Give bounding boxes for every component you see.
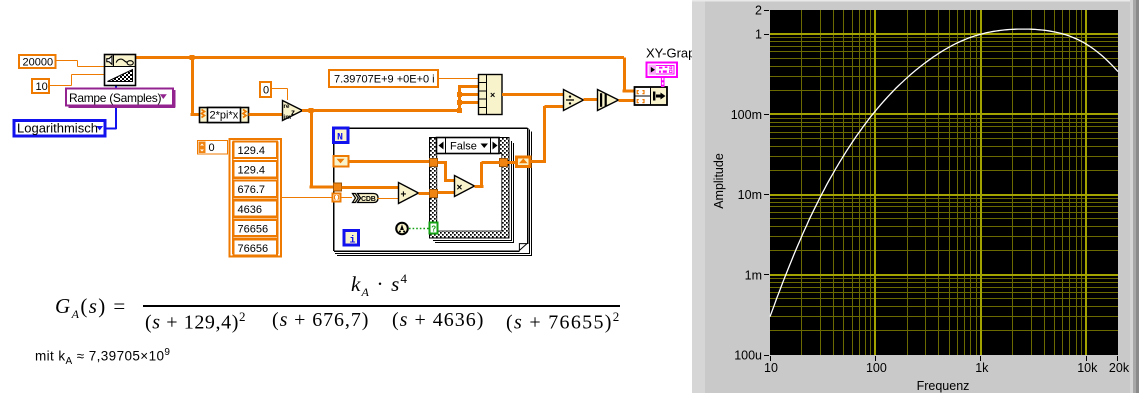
- bundle node: [635, 87, 668, 105]
- svg-text:0: 0: [209, 142, 215, 154]
- array element 76656: [234, 239, 278, 256]
- wire divide to abs: [584, 98, 598, 101]
- formula G_A(s): [55, 294, 127, 322]
- front panel background: [692, 0, 1139, 393]
- constant 10: [32, 79, 49, 93]
- wire lower tunnel to multiply: [438, 191, 456, 194]
- multiply node: [455, 176, 475, 197]
- svg-text:?: ?: [431, 225, 436, 234]
- loop stacked sheets: [335, 130, 532, 256]
- svg-text:20k: 20k: [1109, 361, 1130, 375]
- left shift register: [334, 156, 349, 167]
- svg-text:100: 100: [866, 361, 887, 375]
- wait-ms clock icon: [396, 223, 408, 235]
- svg-text:10: 10: [36, 81, 48, 93]
- svg-text:676.7: 676.7: [238, 184, 266, 196]
- wire product to divide: [502, 93, 563, 96]
- abs node: [598, 90, 619, 111]
- svg-text:re: re: [283, 103, 290, 110]
- wire array tunnel to CDB: [341, 197, 353, 199]
- svg-text:20000: 20000: [23, 57, 54, 69]
- wire 10 to ramp icon: [49, 75, 104, 86]
- loop frame: [334, 128, 528, 251]
- svg-text:4636: 4636: [238, 204, 262, 216]
- CDB conversion flag: [353, 194, 379, 204]
- array index box: [198, 141, 228, 155]
- svg-text:2: 2: [755, 4, 762, 18]
- enum constant Logarithmisch: [14, 120, 105, 136]
- constant 0 (re input): [260, 82, 271, 97]
- compound multiply node: [479, 75, 503, 115]
- wire s=jw horizontal: [302, 109, 461, 112]
- svg-text:7.39707E+9 +0E+0 i: 7.39707E+9 +0E+0 i: [334, 73, 435, 85]
- svg-text:×: ×: [490, 90, 495, 100]
- wire s tunnel to add: [342, 186, 399, 189]
- expression node 2*pi*x: [200, 108, 249, 123]
- junction dot s: [309, 108, 314, 113]
- svg-text:2*pi*x: 2*pi*x: [210, 110, 239, 122]
- svg-text:N: N: [337, 133, 343, 144]
- svg-text:Frequenz: Frequenz: [917, 379, 970, 393]
- N count terminal: [334, 128, 349, 144]
- dashed wire XY terminal to bundle: [661, 78, 665, 88]
- svg-text:1m: 1m: [745, 268, 762, 282]
- complex constant kA: [329, 70, 438, 87]
- svg-text:0: 0: [263, 85, 269, 97]
- fraction bar: [143, 305, 620, 307]
- main ramp wire (top): [136, 56, 624, 59]
- formula denominator: [145, 309, 246, 335]
- case right tunnel: [500, 159, 508, 167]
- svg-text:+: +: [401, 190, 407, 201]
- svg-text:129.4: 129.4: [238, 165, 266, 177]
- wire CDB to add: [378, 198, 399, 200]
- wire abs to bundle: [619, 99, 635, 102]
- svg-text:×: ×: [457, 183, 463, 194]
- svg-text:10k: 10k: [1077, 361, 1098, 375]
- svg-text:Logarithmisch: Logarithmisch: [17, 120, 98, 135]
- s bus to multiply inputs: [458, 87, 478, 111]
- svg-text:i: i: [350, 234, 356, 246]
- x axis ticks: [771, 356, 1118, 361]
- response curve: [770, 29, 1118, 317]
- wire upper tunnel to multiply: [438, 163, 455, 183]
- y axis ticks: [764, 11, 769, 356]
- loop input tunnel (array, indexed): [333, 194, 341, 202]
- svg-text:z: z: [291, 108, 295, 117]
- wire junction at ramp output branch: [190, 55, 195, 60]
- case stacked sheets: [433, 141, 514, 243]
- wire branch down to 2*pi*x: [191, 58, 200, 117]
- array constant values: [230, 139, 282, 257]
- wire 0 to re/im: [271, 89, 288, 101]
- kA note: [35, 347, 170, 367]
- plot area background: [770, 10, 1118, 355]
- svg-text:CDB: CDB: [361, 196, 376, 203]
- panel right shadow: [1130, 0, 1133, 393]
- re/im to complex node: [283, 101, 303, 121]
- loop corner fold: [519, 244, 527, 251]
- wire multiply to right tunnel: [475, 162, 501, 187]
- case left tunnel lower: [430, 190, 438, 198]
- case hatched border: [430, 138, 510, 239]
- svg-text:1k: 1k: [975, 361, 989, 375]
- case left tunnel upper: [430, 159, 438, 167]
- svg-text:1: 1: [755, 28, 762, 42]
- svg-text:100m: 100m: [731, 108, 762, 122]
- svg-text:129.4: 129.4: [238, 145, 266, 157]
- wire s down into loop: [310, 111, 334, 189]
- svg-text:76656: 76656: [238, 243, 269, 255]
- array element 4636: [234, 200, 278, 217]
- wire 2*pi*x to re/im: [249, 113, 283, 116]
- right shift register: [517, 157, 531, 167]
- grid minor lines: [770, 10, 1118, 355]
- wire SR to case: [349, 160, 430, 163]
- grid major lines: [770, 10, 1118, 355]
- case selector ? terminal: [430, 223, 438, 234]
- wire kA to multiply input 1: [438, 78, 478, 80]
- wire case to right SR: [507, 161, 517, 164]
- array element 76656: [234, 220, 278, 237]
- array element 129.4: [234, 161, 278, 178]
- add node: [399, 183, 419, 204]
- svg-text:76656: 76656: [238, 223, 269, 235]
- wire ramp down to bundle: [623, 58, 635, 93]
- svg-text:10: 10: [764, 361, 778, 375]
- dotted wire clock to ?: [409, 228, 429, 230]
- wire 20000 to ramp icon: [56, 61, 105, 67]
- svg-text:10m: 10m: [738, 188, 762, 202]
- svg-text:Rampe (Samples): Rampe (Samples): [69, 91, 162, 105]
- wire array to loop tunnel: [281, 197, 333, 199]
- case selector label: [437, 138, 500, 154]
- ramp VI icon: [105, 55, 136, 86]
- array element 676.7: [234, 181, 278, 198]
- ring constant Rampe (Samples): [66, 89, 175, 108]
- constant 20000: [19, 55, 56, 68]
- wire add to case tunnel: [419, 192, 431, 195]
- svg-text:False: False: [450, 141, 477, 153]
- loop output wire to divide: [531, 106, 563, 163]
- formula numerator: [351, 271, 408, 300]
- loop input tunnel (s): [334, 183, 342, 191]
- divide node: [564, 90, 584, 111]
- array element 129.4: [234, 142, 278, 159]
- XY graph terminal: [647, 63, 678, 78]
- blue wire Logarithmisch to ring: [106, 86, 117, 130]
- svg-text:Amplitude: Amplitude: [712, 153, 726, 209]
- i iteration terminal: [344, 231, 359, 247]
- svg-text:100u: 100u: [734, 349, 762, 363]
